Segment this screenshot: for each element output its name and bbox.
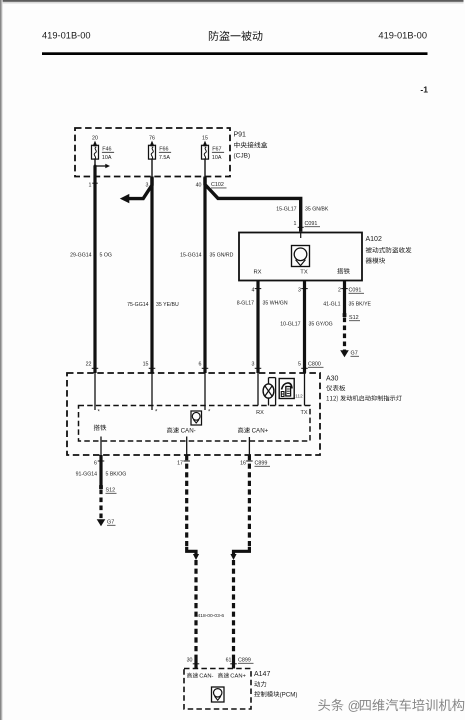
label 高速 CAN- in A30 bbox=[167, 427, 196, 434]
fuse F46 10A pin 20 bbox=[92, 136, 115, 177]
off-page arrow (thick) from P91 pin3 branch bbox=[120, 178, 152, 204]
svg-text:1: 1 bbox=[89, 183, 92, 189]
ground G7 symbol (A30 side) bbox=[97, 519, 116, 526]
svg-text:P91: P91 bbox=[234, 132, 247, 139]
svg-text:A30: A30 bbox=[326, 376, 339, 383]
svg-text:4: 4 bbox=[252, 288, 255, 294]
svg-text:6: 6 bbox=[94, 461, 97, 467]
svg-text:10-GL17: 10-GL17 bbox=[280, 322, 300, 328]
label 发动机启动抑制指示灯 bbox=[340, 395, 402, 401]
label wire 29-GG14 5 OG bbox=[70, 253, 112, 259]
label P91 中央接线盒 (CJB) bbox=[234, 132, 268, 160]
svg-text:76: 76 bbox=[149, 136, 155, 142]
wire stub A30 pin15 to inner board bbox=[151, 373, 153, 410]
svg-text:35 GY/OG: 35 GY/OG bbox=[309, 322, 333, 328]
A102 internal labels RX TX 搭铁 bbox=[253, 268, 349, 276]
svg-text:35 BK/YE: 35 BK/YE bbox=[349, 302, 372, 308]
svg-text:22: 22 bbox=[86, 362, 92, 368]
label wire 15-GG14 35 GN/RD bbox=[180, 253, 234, 259]
wire dashed from S12 to ground G7 bbox=[343, 318, 346, 351]
svg-text:F67: F67 bbox=[212, 146, 221, 152]
module A30 inner circuit board (dashed box) bbox=[79, 406, 311, 442]
label wire 91-GG14 5 BK/OG bbox=[76, 472, 127, 478]
pins 30,61 of A147 and connector C899 bbox=[187, 658, 254, 664]
svg-text:@: @ bbox=[348, 699, 361, 713]
svg-text:C091: C091 bbox=[349, 288, 362, 294]
wire stub A30 pin5 TX to inner board bbox=[304, 373, 306, 406]
svg-text:112: 112 bbox=[295, 394, 303, 399]
label A102 被动式防盗收发器模块 bbox=[366, 236, 412, 264]
svg-text:91-GG14: 91-GG14 bbox=[76, 472, 97, 478]
svg-text:1: 1 bbox=[294, 221, 297, 227]
svg-text:15-GL17: 15-GL17 bbox=[276, 207, 296, 213]
module A102 passive anti-theft transceiver (box) bbox=[239, 233, 362, 281]
thick feed wire 15-GL17 from C102 to A102 pin1 bbox=[205, 178, 301, 232]
CAN transceiver node symbol in A30 bbox=[191, 411, 202, 425]
svg-text:F66: F66 bbox=[159, 146, 168, 152]
svg-text:29-GG14: 29-GG14 bbox=[70, 253, 91, 259]
svg-text:RX: RX bbox=[253, 270, 261, 276]
svg-text:(CJB): (CJB) bbox=[234, 153, 251, 160]
label 搭铁 in A30 bbox=[94, 425, 107, 431]
svg-text:35 WH/GN: 35 WH/GN bbox=[263, 301, 288, 307]
svg-text:C800: C800 bbox=[308, 362, 321, 368]
svg-text:C102: C102 bbox=[211, 182, 224, 188]
svg-text:TX: TX bbox=[300, 270, 308, 276]
svg-text:418-00-03-6: 418-00-03-6 bbox=[198, 613, 225, 619]
svg-text:15-GG14: 15-GG14 bbox=[180, 253, 201, 259]
svg-text:A147: A147 bbox=[254, 671, 270, 678]
svg-text:419-01B-00: 419-01B-00 bbox=[42, 31, 91, 41]
svg-text:75-GG14: 75-GG14 bbox=[127, 302, 148, 308]
label A30 仪表板 112) engine start inhibit indicator bbox=[326, 376, 345, 392]
module A147 powertrain control module (dashed box) bbox=[184, 669, 251, 710]
wire stub A30 pin6 to inner board bbox=[204, 373, 206, 410]
wire 91-GG14 0.5 BK/OG ground from A30 bbox=[99, 455, 102, 486]
svg-text:40: 40 bbox=[196, 183, 202, 189]
label wire 75-GG14 35 YE/BU bbox=[127, 302, 179, 308]
svg-text:35 GN/RD: 35 GN/RD bbox=[210, 253, 234, 259]
wire 10-GL17 0.35 GY/OG TX from A102 pin3 to A30 pin5 bbox=[303, 281, 306, 374]
A30 inner labels RX TX bbox=[256, 410, 308, 416]
wire dashed from S12 to ground G7 (A30 side) bbox=[99, 490, 102, 520]
svg-text:3: 3 bbox=[146, 183, 149, 189]
svg-text:419-01B-00: 419-01B-00 bbox=[378, 31, 427, 41]
svg-text:5 OG: 5 OG bbox=[100, 253, 112, 259]
header rule bbox=[42, 52, 428, 55]
transceiver antenna symbol inside A102 bbox=[292, 246, 310, 267]
svg-text:-1: -1 bbox=[420, 85, 428, 95]
svg-text:CAN-: CAN- bbox=[181, 428, 196, 435]
module A30 instrument cluster (dashed box) bbox=[67, 373, 320, 455]
svg-text:17: 17 bbox=[177, 461, 183, 467]
svg-text:C899: C899 bbox=[255, 461, 268, 467]
svg-text:C091: C091 bbox=[305, 221, 318, 227]
splice S12 on A30 ground wire bbox=[99, 485, 116, 493]
svg-text:20: 20 bbox=[92, 136, 98, 142]
svg-text:35 GN/BK: 35 GN/BK bbox=[305, 207, 329, 213]
svg-text:G7: G7 bbox=[351, 351, 358, 357]
pins 22,15,6,3,5 of A30 and connector C800 bbox=[86, 362, 324, 369]
twisted pair CAN- dashed wire from A30 to PCM bbox=[187, 455, 199, 669]
labels 高速 CAN- / 高速 CAN+ in A147 bbox=[187, 673, 247, 680]
svg-text:41-GL1: 41-GL1 bbox=[323, 302, 340, 308]
junction arrow inside CJB on fuse F46 output bbox=[94, 164, 111, 169]
svg-text:3: 3 bbox=[298, 288, 301, 294]
wire 8-GL17 0.35 WH/GN RX from A102 pin4 to A30 pin3 bbox=[256, 281, 259, 374]
svg-text:6: 6 bbox=[199, 362, 202, 368]
svg-text:15: 15 bbox=[202, 136, 208, 142]
pin 1 of A102 and connector C091 bbox=[294, 221, 320, 227]
svg-text:5: 5 bbox=[298, 362, 301, 368]
ground wire 41-GL1 0.35 BK/YE from A102 pin2 bbox=[343, 281, 346, 315]
security indicator icon (car+key) 112 in A30 bbox=[279, 379, 303, 399]
svg-text:10A: 10A bbox=[102, 155, 112, 161]
svg-text:CAN-: CAN- bbox=[199, 674, 213, 680]
wire 75-GG14 0.35 YE/BU from P91 pin3 to A30 pin15 bbox=[150, 177, 153, 374]
svg-text:3: 3 bbox=[252, 362, 255, 368]
module P91 central junction box (dashed) bbox=[75, 128, 230, 177]
svg-text:8-GL17: 8-GL17 bbox=[237, 301, 254, 307]
svg-text:F46: F46 bbox=[102, 146, 111, 152]
fuse F66 7.5A pin 76 bbox=[149, 136, 172, 177]
svg-text:RX: RX bbox=[256, 410, 264, 416]
ground G7 symbol (A102 side) bbox=[340, 350, 359, 357]
pins 4,3,2 of A102 and connector C091 bbox=[252, 288, 364, 294]
svg-text:TX: TX bbox=[300, 410, 307, 416]
svg-text:(PCM): (PCM) bbox=[280, 692, 298, 699]
label wire 8-GL17 35 WH/GN bbox=[237, 301, 288, 307]
label A147 动力 控制模块(PCM) bbox=[254, 671, 297, 699]
wire CAN- inside A30 bbox=[186, 437, 188, 456]
wire CAN+ inside A30 bbox=[248, 437, 250, 455]
svg-text:2: 2 bbox=[338, 288, 341, 294]
svg-text:16: 16 bbox=[240, 461, 246, 467]
pin 40 of P91 and connector C102 bbox=[196, 182, 227, 188]
label wire 10-GL17 35 GY/OG bbox=[280, 322, 332, 328]
wire stub A30 pin3 RX to inner board bbox=[257, 373, 259, 406]
label 高速 CAN+ in A30 bbox=[238, 427, 269, 434]
svg-text:35 YE/BU: 35 YE/BU bbox=[156, 302, 179, 308]
svg-text:CAN+: CAN+ bbox=[230, 674, 246, 680]
fuse F67 10A pin 15 bbox=[202, 136, 225, 177]
svg-text:S12: S12 bbox=[106, 488, 116, 494]
svg-text:5 BK/OG: 5 BK/OG bbox=[106, 472, 127, 478]
wire 29-GG14 0.5 OG from P91 pin1 to A30 pin22 bbox=[93, 166, 96, 373]
svg-text:10A: 10A bbox=[212, 155, 222, 161]
svg-text:15: 15 bbox=[143, 362, 149, 368]
splice S12 on A102 ground wire bbox=[343, 313, 360, 321]
svg-text:S12: S12 bbox=[349, 315, 359, 321]
svg-text:61: 61 bbox=[226, 658, 232, 664]
CAN transceiver node symbol in A147 bbox=[212, 687, 225, 702]
indicator lamp (theft) in A30 bbox=[263, 378, 276, 406]
svg-text:A102: A102 bbox=[366, 236, 382, 243]
watermark 头条@四维汽车培训机构 bbox=[318, 699, 464, 713]
wire ground inside A30 from board to pin6 bottom bbox=[100, 437, 102, 456]
pin stub inside A102 from pin 1 bbox=[300, 233, 302, 239]
asterisk marks on inner board pins bbox=[98, 410, 212, 416]
svg-text:G7: G7 bbox=[107, 520, 114, 526]
pin 16 of A30 bottom (CAN+) and connector C899 bbox=[240, 461, 270, 467]
svg-text:30: 30 bbox=[187, 658, 193, 664]
header title 防盗一被动 (anti-theft passive) bbox=[209, 31, 263, 41]
svg-text:CAN+: CAN+ bbox=[252, 428, 269, 435]
label wire 15-GL17 35 GN/BK bbox=[276, 207, 329, 213]
wire stub A30 pin22 to inner board (ground) bbox=[94, 373, 96, 410]
svg-text:C899: C899 bbox=[238, 658, 251, 664]
svg-text:7.5A: 7.5A bbox=[159, 155, 170, 161]
wire 15-GG14 0.35 GN/RD from P91 pin40 to A30 pin6 bbox=[203, 177, 206, 374]
label wire 41-GL1 35 BK/YE bbox=[323, 302, 371, 308]
twisted pair CAN+ dashed wire from A30 to PCM bbox=[230, 455, 249, 669]
